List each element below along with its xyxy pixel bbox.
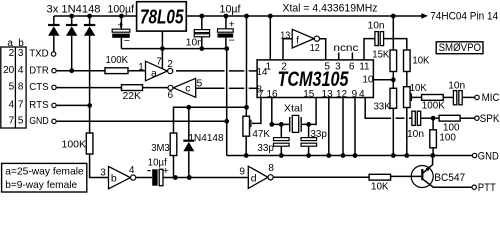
svg-text:2: 2 [167, 59, 173, 70]
node ground bus R7 [404, 153, 409, 158]
svg-text:BC547: BC547 [434, 172, 465, 184]
label 10uf C3 [220, 4, 242, 16]
svg-text:100K: 100K [106, 54, 129, 66]
label pin 5 (U1c in) [197, 78, 203, 89]
svg-text:4: 4 [129, 165, 135, 176]
svg-text:+: + [117, 19, 123, 31]
svg-text:3x 1N4148: 3x 1N4148 [47, 4, 101, 16]
node +5 feed top [244, 14, 249, 19]
label TCM3105 pin 6 [349, 61, 355, 72]
label 3M3 R4 [151, 142, 170, 154]
svg-text:a: a [151, 67, 157, 79]
label 10n C2 [186, 36, 203, 48]
wire C6 to MIC [462, 96, 475, 98]
resistor R6 10K [404, 50, 411, 72]
label column b [18, 38, 24, 49]
svg-text:13: 13 [280, 30, 290, 41]
diode D3 1N4148 (RTS) [84, 16, 95, 105]
svg-text:10n: 10n [186, 36, 203, 48]
node ground bus C8 [306, 153, 311, 158]
svg-text:14: 14 [256, 67, 268, 78]
wire 78L05 ground lead down to ground bus and 74HC04 pin7 [161, 31, 163, 69]
capacitor C7 33p (xtal left) [274, 124, 290, 155]
capacitor C3 10uf electrolytic [218, 16, 235, 49]
wire +5V feed down to 15K [392, 16, 394, 50]
label pin 4 (U1b out) [129, 165, 135, 176]
svg-text:10n: 10n [407, 128, 424, 140]
svg-text:f: f [296, 34, 299, 46]
label TCM3105 pin 1 [266, 61, 272, 72]
label pins 2/3 TXD [9, 48, 49, 60]
label TCM3105 pin 9 [352, 89, 358, 100]
svg-text:5: 5 [324, 61, 330, 72]
node DTR-diode D2 [69, 68, 74, 73]
wire SPK node down [432, 118, 434, 130]
terminal GND [52, 119, 56, 123]
label pin 6 (U1c out) [168, 90, 174, 101]
capacitor C6 10n (MIC) [453, 91, 462, 105]
node ground bus C7 [279, 153, 284, 158]
svg-text:3: 3 [18, 48, 24, 59]
label 10K R6 [412, 54, 429, 66]
wire TCM3105 pin 1 lead [269, 16, 271, 60]
wire 15K to node [392, 72, 394, 89]
svg-text:3: 3 [100, 167, 106, 178]
node ground bus pin9 [353, 153, 358, 158]
terminal GND [472, 153, 476, 157]
label 3x 1N4148 [47, 4, 101, 16]
svg-text:10K: 10K [371, 181, 389, 193]
inverter U1c 74HC04 (left pointing) [168, 78, 196, 97]
svg-text:9: 9 [239, 166, 245, 177]
wire TCM3105 pin 11 to 10n [364, 39, 375, 60]
terminal SPK [475, 116, 479, 120]
svg-text:−: − [124, 35, 130, 47]
label 1N4148 D5 [189, 132, 224, 144]
svg-text:13: 13 [322, 89, 334, 100]
svg-text:1: 1 [138, 62, 144, 73]
wire +5V rail left segment (diodes to 78L05 input) [54, 15, 137, 17]
label GND [478, 150, 499, 162]
label TCM3105 pin 10 [362, 74, 374, 85]
node C2 bottom on bus [199, 46, 204, 51]
node 100uf top [119, 14, 124, 19]
svg-text:100: 100 [439, 132, 456, 144]
wire TCM3105 pin 16 to crystal [271, 98, 273, 125]
diode D5 1N4148 (PTT discharge) [183, 107, 194, 177]
svg-text:4: 4 [9, 100, 15, 111]
svg-text:+: + [163, 165, 169, 177]
svg-text:22K: 22K [123, 90, 142, 102]
wire TCM3105 pin 9 to ground [354, 98, 356, 156]
label 47K R10 [252, 128, 270, 140]
label TCM3105 pin 12 [336, 89, 348, 100]
resistor R12 100 (SPK shunt) [430, 130, 437, 148]
svg-text:5: 5 [18, 115, 24, 126]
label TCM3105 pin 2 [281, 61, 287, 72]
info box a=25-way female b=9-way female [2, 163, 87, 192]
inverter U1f 74HC04 [292, 29, 319, 48]
wire 22K to inverter c output [143, 87, 169, 89]
label 74HC04 Pin 14 [430, 11, 498, 23]
svg-text:CTS: CTS [29, 82, 49, 93]
svg-text:4: 4 [359, 89, 365, 100]
label 10n C9 [407, 128, 424, 140]
label 10uf C4 [148, 157, 167, 169]
resistor R8 33K [390, 88, 397, 108]
label pin 13 (U1f in) [280, 30, 290, 41]
wire +5V rail right segment [186, 15, 421, 17]
svg-text:12: 12 [336, 89, 348, 100]
node C7 xtal wire [279, 122, 284, 127]
wire +5V feed down to 47K/3M3 node [246, 16, 248, 107]
wire nc stub pin 6 [351, 53, 353, 60]
svg-text:+: + [229, 18, 235, 30]
node 15K feed top [391, 14, 396, 19]
node ground bus 33K [391, 153, 396, 158]
svg-text:−: − [229, 34, 235, 46]
label 33p C7 [257, 142, 274, 154]
svg-text:TXD: TXD [29, 49, 49, 60]
wire TCM3105 pin 2 to U1f input [283, 39, 292, 60]
label 22K R2 [123, 90, 142, 102]
svg-text:a=25-way female: a=25-way female [5, 167, 84, 178]
svg-text:4: 4 [18, 65, 24, 76]
regulator U2 78L05 box [137, 2, 187, 31]
svg-text:SPK: SPK [480, 113, 500, 125]
node pin16/xtal left [269, 122, 274, 127]
label PTT [478, 182, 496, 194]
capacitor C4 10uf electrolytic (horizontal) [147, 165, 169, 186]
label SM0VPO [439, 42, 482, 54]
svg-text:15: 15 [303, 89, 315, 100]
svg-text:ncnc: ncnc [333, 42, 358, 54]
label pin 2 (U1a out) [167, 59, 173, 70]
wire 47K bottom to ground bus [245, 136, 247, 155]
wire U1d output to 10K R13 [273, 176, 369, 178]
label pin 7 of 74HC04 [156, 57, 162, 68]
node diode D3 top [87, 14, 92, 19]
node pin10/15K/33K bias [391, 77, 396, 82]
label pins 7/5 GND [9, 115, 49, 127]
label TCM3105 pin 4 [359, 89, 365, 100]
svg-text:33p: 33p [257, 142, 274, 154]
label pins 4/7 RTS [9, 100, 50, 112]
IC U3 TCM3105 box [257, 60, 373, 98]
wire xtal right to pin 15 [301, 98, 316, 125]
svg-text:GND: GND [29, 116, 49, 127]
wire C5 to 10K R6 (crosses 15K feed) [384, 39, 407, 50]
node SPK divider [431, 116, 436, 121]
label column a [7, 38, 13, 49]
inverter U1b 74HC04 [109, 166, 136, 188]
wire TCM3105 pin 12 to ground [342, 98, 344, 156]
connector table box [1, 47, 26, 128]
label nc nc [333, 42, 358, 54]
svg-text:SMØVPO: SMØVPO [439, 42, 482, 54]
label 10n C6 [448, 79, 465, 91]
wiper of preset R7 [411, 93, 421, 101]
svg-text:1N4148: 1N4148 [189, 132, 224, 144]
svg-text:33K: 33K [374, 101, 391, 113]
svg-text:47K: 47K [252, 128, 270, 140]
inverter U1a 74HC04 [146, 61, 173, 81]
capacitor C9 10n (SPK) [412, 111, 421, 125]
resistor R13 10K (base) [369, 174, 391, 180]
node ground bus 47K [244, 153, 249, 158]
label pins 5/8 CTS [9, 82, 50, 94]
node ground bus pin13 [326, 153, 331, 158]
terminal CTS [52, 85, 56, 89]
node C3 bottom / ground feed [224, 46, 229, 51]
crystal X1 4.433619MHz [290, 115, 302, 132]
wire U1b output to 10uf [136, 177, 152, 179]
svg-text:DTR: DTR [29, 65, 49, 76]
svg-text:b=9-way female: b=9-way female [5, 180, 77, 191]
terminal DTR [52, 69, 56, 73]
wire TCM3105 pin 7 to 47K wiper [252, 98, 261, 124]
wire 33K down to ground bus (crosses RX row) [392, 108, 394, 155]
label pin 3 (U1b in) [100, 167, 106, 178]
label BC547 Q1 [434, 172, 465, 184]
svg-text:Xtal: Xtal [284, 103, 303, 115]
terminal TXD [51, 52, 55, 56]
node ground bus R12/emitter [430, 153, 435, 158]
svg-text:11: 11 [359, 61, 370, 72]
wire 100K to 10n C6 [443, 96, 453, 98]
label 100K R9 [422, 100, 445, 112]
label pins 20/4 DTR [3, 65, 49, 77]
resistor R1 100K (DTR) [105, 68, 128, 74]
ground bus under 78L05 [121, 48, 226, 50]
wire R13 to base [391, 175, 422, 177]
svg-text:d: d [251, 172, 257, 184]
wire ground feed down (crosses pin14 and pin8 wires) [226, 49, 228, 156]
wire R11 to SPK [460, 117, 475, 119]
label 100K R1 [106, 54, 129, 66]
wire nc stub pin 3 [338, 53, 340, 60]
label TCM3105 pin 16 [266, 89, 278, 100]
resistor R3 100K (RTS to inverter b) [86, 133, 93, 154]
label 100uf [108, 4, 135, 16]
node ground feed to DB connector GND row [224, 119, 229, 124]
node diode D5 anode [187, 175, 192, 180]
transistor Q1 BC547 [411, 156, 472, 188]
svg-text:RTS: RTS [29, 100, 49, 111]
wire R6 to R7 preset [406, 72, 408, 87]
label 33p C8 [310, 128, 327, 140]
label TCM3105 pin 15 [303, 89, 315, 100]
wire R7 down to ground bus (crosses RX row) [406, 108, 408, 156]
wire net X (+5V to 3M3/diode/47K) [174, 107, 247, 133]
wire C9 to SPK node [421, 117, 433, 119]
svg-text:10n: 10n [368, 19, 385, 31]
node diode D4 cathode [186, 105, 191, 110]
node diode D2 top [69, 14, 74, 19]
svg-text:10: 10 [362, 74, 374, 85]
svg-text:15K: 15K [372, 49, 389, 61]
node ground bus pin12 [341, 153, 346, 158]
terminal MIC [475, 95, 479, 99]
resistor R2 22K (CTS) [122, 85, 143, 91]
wire TCM3105 pin 4 to RX row (gaps at 33K,R7 leads) [365, 98, 412, 119]
svg-text:100K: 100K [422, 100, 445, 112]
label TCM3105 pin 14 [256, 67, 268, 78]
svg-text:7: 7 [18, 100, 24, 111]
label Xtal = 4.433619MHz [283, 2, 378, 14]
preset R10 47K (RX bias) [243, 116, 250, 136]
wire DTR row to 100K [56, 70, 105, 72]
capacitor C2 10n [194, 16, 209, 49]
svg-text:78L05: 78L05 [140, 7, 184, 29]
svg-text:8: 8 [18, 82, 24, 93]
label TCM3105 pin 13 [322, 89, 334, 100]
arrow to 74HC04 pin 14 [421, 13, 428, 19]
label TCM3105 pin 7 [258, 89, 264, 100]
svg-text:33p: 33p [310, 128, 327, 140]
wire 47K top to +5 node [245, 107, 247, 116]
label pin 1 (U1a in) [138, 62, 144, 73]
svg-text:GND: GND [478, 150, 499, 162]
label 100K R3 [62, 138, 87, 150]
wire TCM3105 pin 13 to ground [328, 98, 330, 156]
label Xtal X1 [284, 103, 303, 115]
label TCM3105 [278, 68, 349, 91]
svg-text:5: 5 [9, 82, 15, 93]
wire 3M3 to 10uf node [173, 156, 175, 178]
svg-text:3M3: 3M3 [151, 142, 170, 154]
svg-text:10n: 10n [448, 79, 465, 91]
node TCM3105 pin 1 VDD [268, 14, 273, 19]
svg-text:6: 6 [168, 90, 174, 101]
label pin 8 (U1d out) [268, 163, 274, 174]
svg-text:PTT: PTT [478, 182, 496, 193]
label 15K R5 [372, 49, 389, 61]
svg-text:100K: 100K [62, 138, 87, 150]
wire R12 to ground bus [432, 148, 434, 156]
diode D1 1N4148 (TXD) [48, 16, 59, 52]
wire U1a output to TCM3105 pin 14 (gaps at crossings) [176, 70, 257, 72]
node 10uf C3 top [224, 14, 229, 19]
label SM0VPO box [436, 42, 483, 54]
wire TCM3105 pin 8 to U1c input (gaps at crossings) [196, 87, 257, 89]
capacitor C8 33p (xtal right) [301, 124, 317, 155]
resistor R11 100 (SPK series) [439, 115, 460, 121]
node 10n C2 top [199, 14, 204, 19]
node 3M3/10uf [173, 175, 178, 180]
svg-text:20: 20 [3, 65, 15, 76]
diode D2 1N4148 (DTR) [66, 16, 77, 71]
node 47K top / +5 feed [244, 105, 249, 110]
svg-text:2: 2 [281, 61, 287, 72]
resistor R5 15K [390, 50, 397, 72]
svg-text:c: c [185, 83, 190, 95]
label pin 9 (U1d in) [239, 166, 245, 177]
resistor R4 3M3 [170, 133, 177, 156]
svg-text:8: 8 [268, 163, 274, 174]
label TCM3105 pin 3 [335, 61, 341, 72]
wire 100K R3 to inverter b input [90, 154, 109, 178]
label TCM3105 pin 11 [359, 61, 370, 72]
wire CTS row to 22K [56, 87, 121, 89]
label SPK [480, 113, 500, 125]
svg-text:10K: 10K [410, 82, 427, 94]
label pin 12 (U1f out) [310, 43, 320, 54]
svg-text:74HC04 Pin 14: 74HC04 Pin 14 [430, 11, 498, 23]
capacitor C5 10n (RX) [375, 32, 384, 46]
svg-text:12: 12 [310, 43, 320, 54]
label 100 R11 [443, 122, 460, 134]
node 78L05 gnd on bus [160, 46, 165, 51]
capacitor C1 100uf electrolytic [112, 16, 130, 49]
wire 100K to inverter a input [128, 70, 146, 72]
wire 10uf to inverter d input [163, 177, 248, 179]
wire node to R11 [433, 117, 439, 119]
label 33K R8 [374, 101, 391, 113]
terminal RTS [52, 103, 56, 107]
label MIC [482, 92, 500, 104]
svg-text:MIC: MIC [482, 92, 500, 104]
label 78L05 [140, 7, 184, 29]
wire TCM3105 pin 10 to bias node [373, 79, 393, 81]
label 100 R12 [439, 132, 456, 144]
svg-text:2: 2 [9, 48, 15, 59]
svg-text:7: 7 [9, 115, 15, 126]
svg-text:10µf: 10µf [220, 4, 242, 16]
ground bus [227, 155, 473, 157]
inverter U1d 74HC04 [248, 166, 273, 188]
node RTS junction [87, 103, 92, 108]
node xtal right / 33p [306, 122, 311, 127]
label 10K R7 [410, 82, 427, 94]
wire RTS row [56, 104, 89, 106]
wire xtal left [272, 123, 290, 125]
wire U1f output to TCM3105 pin 5 [320, 39, 326, 60]
preset R7 10K (TX level) [404, 87, 411, 108]
wire GND row to ground feed [56, 120, 227, 122]
label 10n C5 [368, 19, 385, 31]
label TCM3105 pin 5 [324, 61, 330, 72]
svg-text:Xtal = 4.433619MHz: Xtal = 4.433619MHz [283, 2, 378, 14]
wiper of preset R10 [250, 120, 252, 128]
label 10K R13 [371, 181, 389, 193]
resistor R9 100K (TX to MIC) [422, 95, 444, 101]
label TCM3105 pin 8 [257, 84, 263, 95]
svg-text:6: 6 [349, 61, 355, 72]
wire RTS down to 100K R3 (crosses GND row) [89, 105, 91, 133]
terminal PTT [472, 185, 476, 189]
svg-text:b: b [111, 173, 117, 185]
svg-text:10K: 10K [412, 54, 429, 66]
svg-text:3: 3 [335, 61, 341, 72]
